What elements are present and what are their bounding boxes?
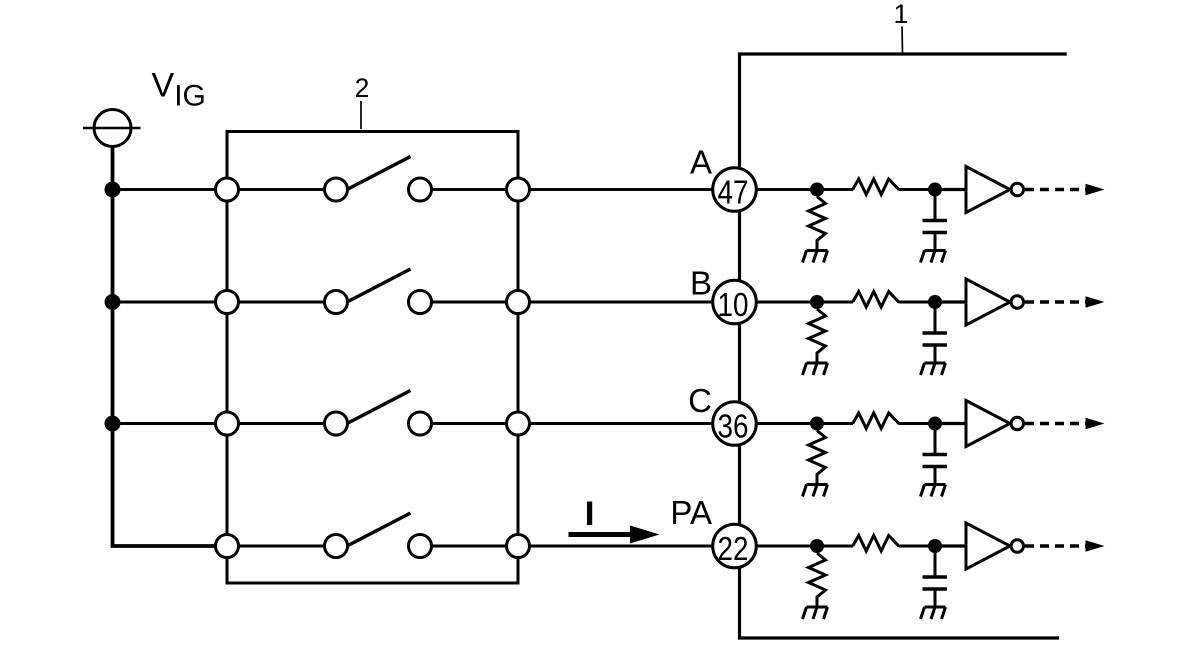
junction dot on bus, row A <box>105 182 121 198</box>
series resistor row PA <box>853 536 900 552</box>
svg-text:VIG: VIG <box>152 67 206 113</box>
ground for shunt resistor row B <box>803 363 828 375</box>
buffer amplifier row PA <box>966 523 1024 569</box>
junction node2 row B <box>928 295 942 309</box>
junction node2 row PA <box>928 539 942 553</box>
ground for capacitor row PA <box>921 607 946 619</box>
pin C (36) <box>713 402 757 446</box>
switch SW-C: right contact <box>409 412 432 435</box>
junction node1 row A <box>810 183 824 197</box>
wire: bus to switch box, row C <box>111 422 227 425</box>
wire: VIG bus vertical with corner into PA row <box>113 147 228 547</box>
wire: node2 to buffer row B <box>942 300 966 303</box>
switch SW-A: left contact <box>325 178 348 201</box>
capacitor row C <box>923 424 948 485</box>
wire: inside box row B (contact to edge) <box>420 301 518 304</box>
voltage source VIG <box>83 110 141 147</box>
svg-text:2: 2 <box>355 73 370 103</box>
switch SW-PA: right contact <box>409 535 432 558</box>
wire: series resistor to node2 row A <box>899 188 942 191</box>
svg-text:B: B <box>690 265 712 302</box>
label 2 with leader tick <box>355 73 370 129</box>
output arrowhead row PA <box>1086 540 1105 551</box>
wire: box 2 to pin A <box>518 188 734 191</box>
wire: node1 to series resistor row PA <box>817 545 853 548</box>
capacitor row B <box>923 302 948 363</box>
switch SW-B: lever <box>347 269 411 302</box>
wire: node2 to buffer row PA <box>942 544 966 547</box>
terminal on box 2 left edge, row C <box>216 412 239 435</box>
svg-text:1: 1 <box>893 0 908 29</box>
output arrowhead row C <box>1086 418 1105 429</box>
svg-text:10: 10 <box>718 286 749 323</box>
junction node2 row C <box>928 417 942 431</box>
wire: node1 to series resistor row C <box>817 422 853 425</box>
switch SW-PA: lever <box>347 513 411 546</box>
switch SW-C: left contact <box>325 412 348 435</box>
svg-text:47: 47 <box>718 174 749 211</box>
junction dot on bus, row B <box>105 294 121 310</box>
series resistor row B <box>853 292 900 308</box>
svg-text:A: A <box>690 144 712 181</box>
shunt resistor row A <box>809 197 826 251</box>
wire: box 2 to pin C <box>518 422 734 425</box>
wire: inside box row PA (edge to contact) <box>227 545 336 548</box>
series resistor row C <box>853 413 900 429</box>
wire: pin B to node1 <box>735 301 817 304</box>
ground for capacitor row B <box>921 363 946 375</box>
series resistor row A <box>853 179 900 195</box>
terminal on box 2 right edge, row B <box>507 291 530 314</box>
switch SW-B: right contact <box>409 291 432 314</box>
ground for shunt resistor row A <box>803 251 828 263</box>
dashed output wire row B <box>1025 300 1086 303</box>
junction node2 row A <box>928 183 942 197</box>
shunt resistor row PA <box>809 553 826 607</box>
shunt resistor row B <box>809 309 826 363</box>
junction dot on bus, row C <box>105 416 121 432</box>
ground for capacitor row C <box>921 485 946 497</box>
switch SW-PA: left contact <box>325 535 348 558</box>
dashed output wire row PA <box>1025 544 1086 547</box>
capacitor row A <box>923 190 948 251</box>
wire: node1 to series resistor row A <box>817 188 853 191</box>
ground for shunt resistor row PA <box>803 607 828 619</box>
svg-text:PA: PA <box>670 494 712 531</box>
wire: box 2 to pin B <box>518 301 734 304</box>
wire: series resistor to node2 row C <box>899 422 942 425</box>
wire: inside box row A (contact to edge) <box>420 188 518 191</box>
pin A (47) <box>713 168 757 212</box>
wire: bus to switch box, row B <box>111 301 227 304</box>
wire: inside box row B (edge to contact) <box>227 301 336 304</box>
buffer amplifier row B <box>966 279 1024 325</box>
output arrowhead row A <box>1086 184 1105 195</box>
terminal on box 2 right edge, row A <box>507 178 530 201</box>
terminal on box 2 left edge, row A <box>216 178 239 201</box>
wire: pin PA to node1 <box>735 545 817 548</box>
label I <box>587 502 592 526</box>
wire: box 2 to pin PA <box>518 545 734 548</box>
wire: bus to switch box, row A <box>111 188 227 191</box>
junction node1 row PA <box>810 539 824 553</box>
buffer amplifier row C <box>966 401 1024 447</box>
switch SW-B: left contact <box>325 291 348 314</box>
wire: pin C to node1 <box>735 422 817 425</box>
svg-text:36: 36 <box>718 408 749 445</box>
pin PA (22) <box>713 524 757 568</box>
wire: inside box row C (contact to edge) <box>420 422 518 425</box>
wire: pin A to node1 <box>735 188 817 191</box>
svg-text:22: 22 <box>718 530 749 567</box>
switch SW-A: lever <box>347 157 411 190</box>
switch box 2 outline <box>227 132 518 584</box>
wire: inside box row A (edge to contact) <box>227 188 336 191</box>
buffer amplifier row A <box>966 167 1024 213</box>
output arrowhead row B <box>1086 296 1105 307</box>
terminal on box 2 right edge, row PA <box>507 535 530 558</box>
wire: inside box row C (edge to contact) <box>227 422 336 425</box>
wire: inside box row PA (contact to edge) <box>420 545 518 548</box>
junction node1 row B <box>810 295 824 309</box>
wire: series resistor to node2 row PA <box>899 545 942 548</box>
dashed output wire row C <box>1025 422 1086 425</box>
junction node1 row C <box>810 417 824 431</box>
terminal on box 2 right edge, row C <box>507 412 530 435</box>
capacitor row PA <box>923 546 948 607</box>
wire: series resistor to node2 row B <box>899 301 942 304</box>
current arrow I <box>569 526 660 544</box>
wire: node2 to buffer row A <box>942 188 966 191</box>
label 1 with leader tick <box>893 0 908 53</box>
pin B (10) <box>713 280 757 324</box>
wire: node2 to buffer row C <box>942 422 966 425</box>
ground for shunt resistor row C <box>803 485 828 497</box>
ground for capacitor row A <box>921 251 946 263</box>
terminal on box 2 left edge, row PA <box>216 535 239 558</box>
terminal on box 2 left edge, row B <box>216 291 239 314</box>
wire: node1 to series resistor row B <box>817 301 853 304</box>
dashed output wire row A <box>1025 188 1086 191</box>
shunt resistor row C <box>809 431 826 485</box>
svg-text:C: C <box>688 382 712 419</box>
IC 1 outline (open right side) <box>740 54 1067 638</box>
switch SW-C: lever <box>347 391 411 424</box>
switch SW-A: right contact <box>409 178 432 201</box>
